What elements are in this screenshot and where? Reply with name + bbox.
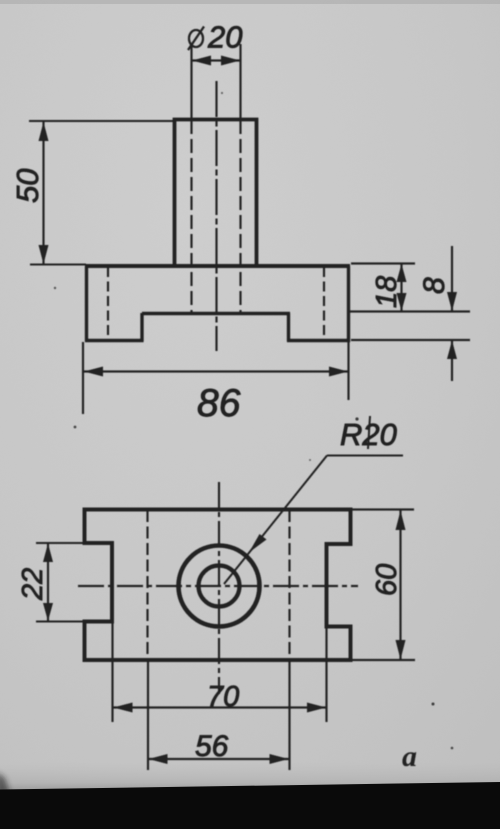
dim 60 arrow top xyxy=(396,511,406,531)
dim 18 line xyxy=(400,264,402,312)
svg-text:70: 70 xyxy=(207,681,239,713)
dim phi20 ext left xyxy=(190,45,192,120)
svg-text:20: 20 xyxy=(207,20,242,55)
dim 70 ext right xyxy=(325,627,327,722)
dim 8 arrow down xyxy=(447,292,457,311)
R20 leader oblique xyxy=(224,456,327,585)
svg-text:50: 50 xyxy=(10,169,45,203)
dim 56 ext right xyxy=(288,660,290,770)
dim 18 ext top (base top extended) xyxy=(351,262,415,264)
dim 22 ext top xyxy=(36,542,84,544)
dim 60 ext top xyxy=(351,508,414,510)
hidden line hole left xyxy=(190,120,192,313)
dim phi20 line xyxy=(192,59,241,61)
shadow above bottom black band xyxy=(0,762,500,791)
dim 50 ext bottom xyxy=(30,264,86,266)
step right vertical xyxy=(287,313,290,342)
hidden line hole right xyxy=(239,120,241,313)
dim 56 line xyxy=(148,758,290,760)
dim phi20 arrow left xyxy=(192,56,211,66)
R20 stray vertical tick xyxy=(368,416,370,449)
dim 70 ext left xyxy=(111,622,113,722)
base top edge xyxy=(85,264,350,268)
step top edge xyxy=(142,312,290,316)
speck dots (photo artifacts) xyxy=(54,287,56,289)
dim 22 line xyxy=(47,543,49,622)
outer circle xyxy=(179,546,260,627)
dim 50 arrow top xyxy=(39,122,49,141)
base bottom right foot xyxy=(287,339,350,343)
svg-text:60: 60 xyxy=(371,564,403,596)
svg-text:a: a xyxy=(402,740,417,773)
dim 18/8 ext middle (step level extended) xyxy=(350,310,470,312)
dim phi20 symbol slash xyxy=(188,27,204,51)
base left edge xyxy=(85,266,88,342)
dim 86 ext right xyxy=(347,342,349,400)
dim 56 arrow left xyxy=(149,754,168,764)
dim 8 ext bottom (base bottom extended) xyxy=(351,339,470,341)
dim 56 ext left xyxy=(147,660,149,770)
dim 86 ext left xyxy=(82,342,84,414)
dim 50 ext top xyxy=(29,120,175,122)
R20 leader shelf xyxy=(327,455,403,457)
hidden line top view left xyxy=(146,510,148,660)
bottom black band xyxy=(0,782,500,829)
dim 70 arrow right xyxy=(307,703,326,713)
dim phi20 arrow right xyxy=(221,56,240,66)
dim 56 arrow right xyxy=(270,754,289,764)
dim 50 arrow bottom xyxy=(39,245,49,264)
dim 86 arrow left xyxy=(84,367,103,377)
dim 60 ext bottom xyxy=(352,659,415,661)
R20 leader arrowhead xyxy=(249,534,267,553)
dim 70 arrow left xyxy=(114,703,133,713)
dim 22 arrow top xyxy=(43,544,53,563)
dim 60 line xyxy=(399,510,401,660)
top edge slight shade xyxy=(0,0,500,4)
top view horizontal center line xyxy=(78,585,358,587)
svg-text:86: 86 xyxy=(197,382,241,425)
stem outline xyxy=(175,120,257,267)
step left vertical xyxy=(140,313,143,342)
dim 8 line lower xyxy=(451,340,453,381)
dim 8 line upper xyxy=(451,246,453,312)
base right edge xyxy=(347,266,350,342)
base bottom left foot xyxy=(85,339,144,343)
svg-text:8: 8 xyxy=(418,277,451,294)
dim phi20 ext right xyxy=(239,44,241,120)
hidden line base left xyxy=(107,267,109,339)
hidden line base right xyxy=(323,267,325,339)
dim phi20 symbol circle xyxy=(189,30,203,47)
dim 86 line xyxy=(83,370,349,372)
dim 22 arrow bottom xyxy=(43,603,53,621)
hidden line top view right xyxy=(288,510,290,660)
svg-text:22: 22 xyxy=(17,568,49,601)
dim 18 arrow bottom xyxy=(397,293,407,311)
dim 22 ext bottom xyxy=(36,621,84,623)
svg-text:56: 56 xyxy=(195,730,229,763)
dim 70 line xyxy=(113,706,327,708)
dim 60 arrow bottom xyxy=(396,640,406,660)
top view outline with side notches xyxy=(85,510,351,661)
svg-text:18: 18 xyxy=(371,276,403,308)
dim 86 arrow right xyxy=(329,367,348,377)
dark bottom-left page corner xyxy=(0,772,10,794)
inner circle xyxy=(199,566,240,607)
top view vertical center line xyxy=(218,482,220,694)
dim 18 arrow top xyxy=(397,264,407,282)
dim 50 line xyxy=(42,121,44,265)
center line front view xyxy=(215,81,217,351)
dim 8 arrow up xyxy=(447,341,457,360)
